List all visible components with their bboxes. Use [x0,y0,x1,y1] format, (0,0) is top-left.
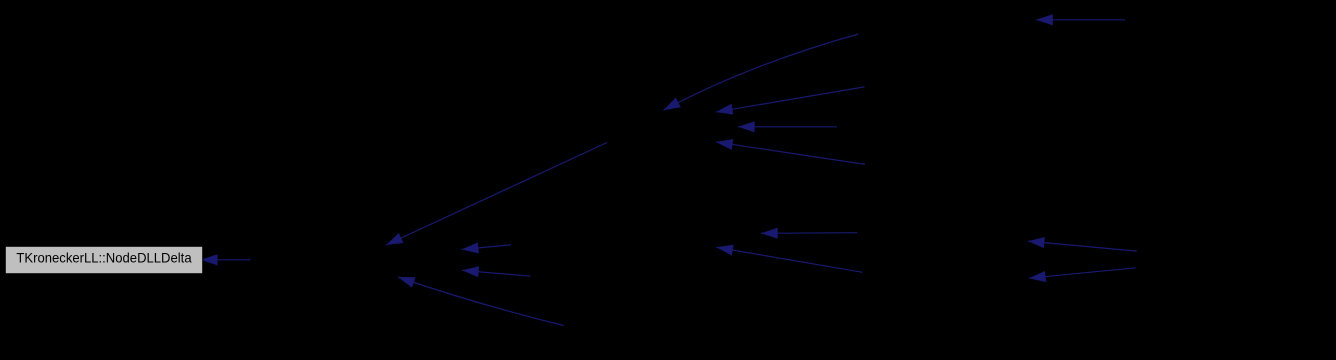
edge arrow E7 short [462,245,512,250]
edge arrow E2 curved from upper right [664,34,859,110]
edge arrow E10 [761,232,857,235]
edge arrow E0 into node TKroneckerLL::NodeDLLDelta [201,259,251,261]
edge arrow E12 [1028,241,1137,251]
edge arrow E8 short [462,270,530,276]
edge arrow E1 top right horizontal [1036,19,1125,21]
edge arrow E5 [716,142,865,164]
node TKroneckerLL::NodeDLLDelta [5,246,203,274]
edge arrow E4 horizontal [738,126,837,128]
edge arrow E6 long diagonal [386,143,607,246]
edge arrow E9 curved from lower right [398,277,564,326]
edge arrow E11 [716,247,862,272]
svg-text:TKroneckerLL::NodeDLLDelta: TKroneckerLL::NodeDLLDelta [16,250,191,266]
edge arrow E13 [1029,268,1136,278]
edge arrow E3 [716,87,864,112]
